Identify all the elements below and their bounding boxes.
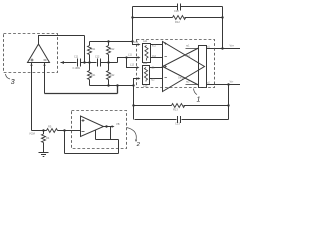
svg-text:C12: C12 <box>95 56 100 59</box>
svg-text:R5: R5 <box>48 125 52 129</box>
svg-text:ro2: ro2 <box>186 81 190 84</box>
svg-text:C11: C11 <box>74 56 79 59</box>
svg-text:L12: L12 <box>130 64 135 67</box>
svg-text:2: 2 <box>136 142 141 148</box>
svg-text:R12: R12 <box>175 20 180 24</box>
svg-text:Gm1: Gm1 <box>185 55 191 58</box>
svg-text:z12: z12 <box>152 55 157 58</box>
svg-text:VCM: VCM <box>29 132 35 136</box>
svg-text:ro1: ro1 <box>186 45 190 48</box>
svg-text:R12: R12 <box>110 48 115 51</box>
svg-text:w12: w12 <box>143 62 148 65</box>
svg-text:Vo+: Vo+ <box>230 43 235 47</box>
svg-text:o1: o1 <box>207 45 210 48</box>
svg-text:VB: VB <box>116 122 120 126</box>
svg-text:1: 1 <box>197 97 201 104</box>
svg-text:Gm2: Gm2 <box>178 77 184 80</box>
svg-text:Vo-: Vo- <box>230 79 234 83</box>
svg-text:3: 3 <box>11 79 15 86</box>
svg-text:R22: R22 <box>110 74 115 77</box>
svg-text:w13: w13 <box>143 85 148 88</box>
svg-text:R11: R11 <box>91 48 96 51</box>
svg-text:R21: R21 <box>91 74 96 77</box>
svg-text:0.1989: 0.1989 <box>73 67 81 70</box>
svg-text:C12: C12 <box>174 9 179 13</box>
svg-text:105: 105 <box>134 41 139 44</box>
svg-text:R4: R4 <box>46 136 50 140</box>
svg-text:o2: o2 <box>207 81 210 84</box>
svg-text:L11: L11 <box>128 54 132 57</box>
svg-text:w11: w11 <box>143 40 148 43</box>
svg-text:R13: R13 <box>173 108 178 112</box>
svg-text:C13: C13 <box>175 122 180 126</box>
